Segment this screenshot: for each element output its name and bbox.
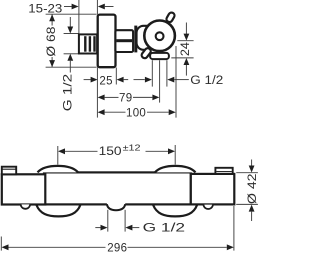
dimension 15-23 left arrow xyxy=(64,6,72,8)
svg-text:±12: ±12 xyxy=(123,142,141,152)
svg-text:150: 150 xyxy=(99,146,122,158)
svg-text:G 1/2: G 1/2 xyxy=(61,73,75,111)
dimension 79 right arrow xyxy=(133,96,152,98)
center outlet bump (below bar) xyxy=(107,203,125,210)
dimension 25 right arrow xyxy=(117,77,124,83)
extension line I (outlet thread left edge) xyxy=(151,60,153,86)
dimension 79 left arrow xyxy=(98,95,105,101)
left handle bottom screw bump xyxy=(21,204,31,208)
extension line (bar top, O42) xyxy=(236,172,258,174)
dimension 150 left arrow xyxy=(58,148,65,154)
extension line (bar bottom, O42) xyxy=(236,203,258,205)
knob grip tab (lower left wedge) xyxy=(140,47,152,59)
shower outlet nut (below knob) xyxy=(150,53,169,59)
extension line (right dome apex, 150 dim) xyxy=(174,145,176,165)
dimension 24 up arrow xyxy=(184,58,190,65)
outlet G 1/2 left arrow xyxy=(134,79,145,81)
dimension 15-23 right arrow xyxy=(98,4,105,10)
dimension 25 left arrow xyxy=(84,79,91,81)
mixer bar body (front view) xyxy=(44,172,191,204)
bottom G 1/2 left arrow xyxy=(95,227,100,229)
hex union nut (side view) xyxy=(115,30,133,52)
extension line B (escutcheon back face, right line of 15-23) xyxy=(96,0,98,14)
extension line (outlet right edge, bottom G 1/2) xyxy=(124,210,126,232)
extension line J (outlet axis / knob center) xyxy=(159,60,161,102)
knob grip tab (upper right lever) xyxy=(165,11,175,23)
dimension 100 right arrow xyxy=(147,111,169,113)
svg-text:Ø 42: Ø 42 xyxy=(245,173,259,204)
extension line E (escutcheon back face, below) xyxy=(96,67,98,117)
hex nut middle facet band xyxy=(117,39,133,42)
extension line (bar left end, 296) xyxy=(0,237,2,251)
knob center cap (small circle) xyxy=(156,32,164,40)
svg-text:296: 296 xyxy=(107,242,127,254)
extension line L (knob front face, right line of 100) xyxy=(175,46,177,118)
dimension 296 left arrow xyxy=(2,244,9,250)
svg-text:79: 79 xyxy=(119,93,132,105)
dimension O42 up arrow xyxy=(249,205,255,212)
temperature control knob (big circle) xyxy=(144,21,175,52)
left handle (front view) xyxy=(2,174,46,204)
wall G 1/2 up arrow xyxy=(67,54,73,61)
right escutcheon bottom arc xyxy=(153,205,197,217)
extension line C (top of escutcheon, for O68) xyxy=(46,13,97,15)
left handle grip tab (top box) xyxy=(2,167,16,175)
outlet G 1/2 right arrow xyxy=(167,77,174,83)
extension line M (top line of 24) xyxy=(177,40,193,42)
knob rear cylinder (crescents behind knob) xyxy=(137,26,154,50)
right handle bottom screw bump xyxy=(203,205,213,209)
left escutcheon bottom arc xyxy=(36,205,80,217)
bottom G 1/2 right arrow xyxy=(125,225,132,231)
svg-text:G 1/2: G 1/2 xyxy=(190,75,223,87)
dimension O68 line and arrows xyxy=(51,14,53,25)
extension line (top of union thread, wall G 1/2) xyxy=(64,33,79,35)
extension line (bar right end, 296) xyxy=(233,206,235,251)
right handle (front view) xyxy=(191,174,235,205)
flange ring (dark strip) xyxy=(134,26,137,53)
extension line (left dome apex, 150 dim) xyxy=(57,146,59,165)
dimension 296 right arrow xyxy=(128,246,227,248)
left escutcheon dome (above bar) xyxy=(38,166,79,173)
right handle grip tab (top box) xyxy=(215,168,232,174)
svg-text:Ø 68: Ø 68 xyxy=(44,26,58,56)
wall G 1/2 down arrow xyxy=(69,17,71,27)
extension line N (bottom line of 24) xyxy=(171,57,193,59)
escutcheon plate body (side view rectangle) xyxy=(98,15,116,68)
dimension 100 left arrow xyxy=(98,109,105,115)
extension line (outlet left edge, bottom G 1/2) xyxy=(107,210,109,232)
extension line F (escutcheon front face, right line of 25) xyxy=(115,68,117,85)
extension line A (wall plate face, left line of 15-23) xyxy=(78,0,80,34)
extension line K (outlet thread right edge) xyxy=(166,60,168,86)
svg-text:24: 24 xyxy=(178,42,192,56)
hatched wall union (threaded connection) xyxy=(79,34,97,53)
svg-text:100: 100 xyxy=(126,108,146,120)
dimension O42 down arrow xyxy=(251,160,253,167)
svg-text:G 1/2: G 1/2 xyxy=(143,223,186,235)
right escutcheon dome (above bar) xyxy=(155,166,196,173)
dimension 24 down arrow xyxy=(185,23,187,35)
dimension 150 right arrow xyxy=(146,150,169,152)
svg-text:25: 25 xyxy=(99,75,112,87)
extension line D (bottom of escutcheon, for O68) xyxy=(46,66,97,68)
extension line (bottom of union thread, wall G 1/2) xyxy=(64,53,79,55)
